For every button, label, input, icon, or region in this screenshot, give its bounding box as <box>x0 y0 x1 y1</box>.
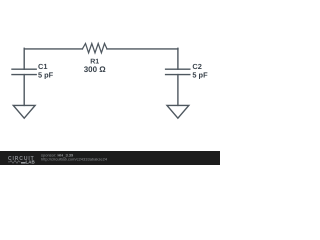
ground symbol right <box>167 105 189 118</box>
svg-text:▬LAB: ▬LAB <box>21 159 35 164</box>
resistor R1 zigzag <box>82 44 107 53</box>
wire C1 to ground <box>23 75 25 106</box>
wire right vertical (top wire to C2) <box>177 48 179 69</box>
wire C2 to ground <box>177 75 179 106</box>
wire top-left horizontal <box>24 48 82 50</box>
capacitor C2 plates <box>166 68 190 70</box>
svg-text:300 Ω: 300 Ω <box>84 65 107 74</box>
capacitor C1 plates <box>12 68 36 70</box>
svg-text:http://circuitlab.com/c24333ab: http://circuitlab.com/c24333abakze24 <box>41 157 108 162</box>
wire top-right horizontal <box>107 48 178 50</box>
wire left vertical (top wire to C1) <box>23 48 25 69</box>
CircuitLab logo: zigzag <box>8 161 21 164</box>
svg-text:5 pF: 5 pF <box>38 70 54 79</box>
svg-text:5 pF: 5 pF <box>192 70 208 79</box>
footer watermark bar <box>0 151 220 165</box>
ground symbol left <box>13 105 35 118</box>
